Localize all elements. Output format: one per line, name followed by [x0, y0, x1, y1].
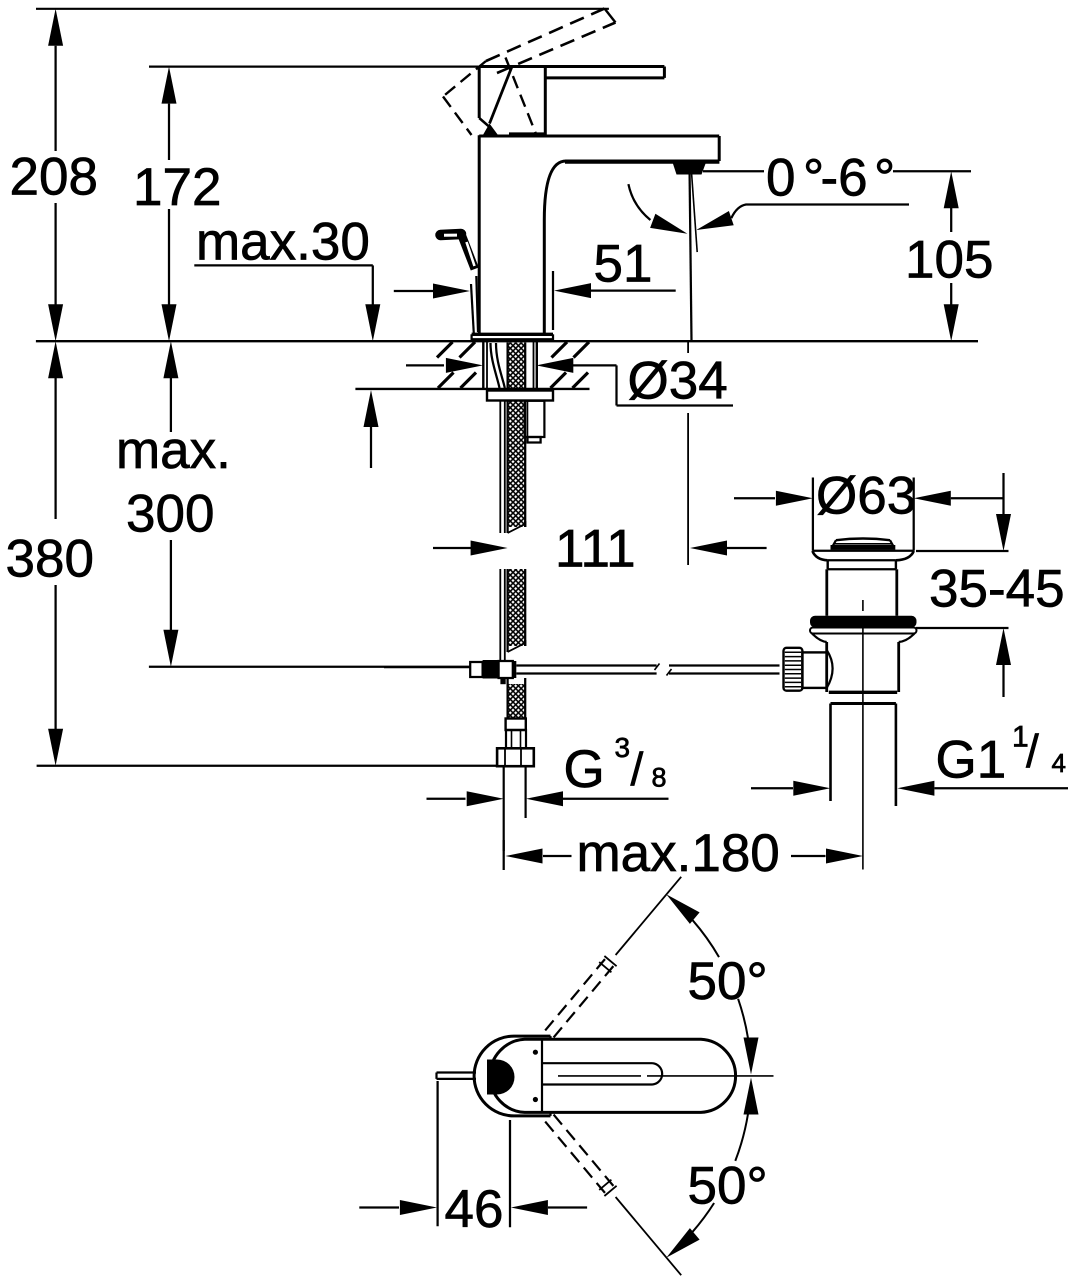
svg-text:Ø63: Ø63: [816, 467, 916, 526]
svg-text:105: 105: [905, 231, 993, 290]
svg-text:°: °: [874, 149, 895, 208]
svg-text:172: 172: [133, 158, 221, 217]
svg-text:35-45: 35-45: [929, 559, 1065, 618]
svg-text:50°: 50°: [688, 1156, 768, 1215]
svg-text:G1: G1: [936, 731, 1007, 790]
svg-text:300: 300: [126, 485, 214, 544]
svg-text:/: /: [631, 743, 644, 795]
svg-text:max.30: max.30: [196, 213, 370, 272]
svg-text:G: G: [564, 740, 605, 799]
svg-text:111: 111: [555, 520, 636, 579]
svg-text:max.180: max.180: [577, 824, 780, 883]
svg-text:0: 0: [766, 149, 795, 208]
svg-text:-6: -6: [821, 149, 868, 208]
svg-text:208: 208: [10, 148, 98, 207]
svg-text:380: 380: [6, 530, 94, 589]
svg-text:51: 51: [594, 235, 653, 294]
svg-text:/: /: [1026, 725, 1039, 777]
svg-text:Ø34: Ø34: [628, 351, 728, 410]
svg-text:max.: max.: [116, 421, 231, 480]
svg-text:4: 4: [1052, 748, 1066, 778]
svg-text:3: 3: [615, 732, 631, 763]
svg-text:8: 8: [652, 762, 667, 792]
svg-text:50°: 50°: [688, 952, 768, 1011]
svg-text:46: 46: [445, 1180, 504, 1239]
